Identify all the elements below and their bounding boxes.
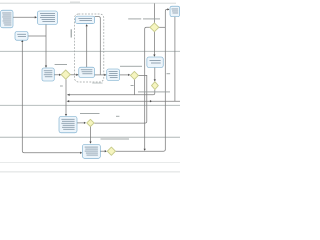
wire box1 to box2	[13, 16, 35, 18]
wire d1 bottom down to box10	[65, 79, 67, 114]
wire box9 bottom down to line b	[174, 17, 176, 102]
task box6	[76, 16, 95, 24]
task box1	[1, 10, 13, 28]
lane line L1	[0, 50, 180, 52]
lane line L4	[0, 162, 180, 164]
label t1 above d1	[55, 64, 67, 65]
wire d4 left corner down long vertical	[145, 27, 150, 149]
wire long left vertical from box3 bottom down, corner right to box11	[22, 42, 80, 153]
task box5	[79, 67, 95, 77]
dashed group rectangle	[75, 14, 104, 82]
label t12 right vertical	[167, 73, 171, 74]
wire box5 to box7	[95, 74, 105, 76]
lane line L3	[0, 136, 180, 138]
label t7 no-branch d1	[60, 86, 63, 87]
label t11 top faint	[70, 1, 80, 4]
wire box4 to diamond d1	[54, 74, 59, 76]
wire box2 down to box4	[45, 24, 47, 65]
task box8	[147, 57, 163, 68]
wire box11 to d6	[100, 150, 105, 152]
wire box5 up to box6	[86, 26, 88, 67]
label t8 no-branch d2	[131, 85, 134, 86]
wire box3 right to junction	[28, 35, 46, 37]
wire box10 to d5	[77, 122, 84, 124]
label t13 below dashed group	[92, 82, 102, 85]
label t2 above d2	[120, 66, 142, 67]
task box7	[107, 69, 120, 81]
wire d4 right to far vertical	[159, 26, 165, 28]
task box10	[59, 117, 77, 133]
task box11	[83, 145, 101, 159]
lane line L5	[0, 171, 180, 173]
gateway d1	[61, 70, 70, 79]
wire d1 to box5	[70, 74, 76, 76]
lane line L2	[0, 104, 180, 106]
gateway d4	[150, 23, 159, 32]
label t5 above d6	[101, 139, 130, 140]
label t10 on d5 wire	[116, 116, 119, 117]
task box4	[42, 68, 54, 81]
wire far right vertical from d6 up to box9	[165, 9, 167, 149]
task box3	[15, 32, 28, 41]
task box2	[37, 11, 57, 24]
wire d2 bottom down to merge line	[133, 79, 135, 94]
label t6 mid right	[138, 91, 170, 92]
gateway d6	[107, 147, 115, 155]
gateway d3	[152, 82, 159, 90]
rotated group label	[71, 29, 72, 37]
wire d6 right corner up far vertical	[116, 149, 166, 151]
wire d3 bottom down corner left long line a	[67, 90, 155, 95]
wire box8 bottom to d3	[154, 68, 156, 80]
gateway d2	[130, 71, 138, 79]
wire box6 down right side	[95, 17, 101, 75]
task box9	[170, 6, 180, 16]
label t3 above d4	[128, 18, 141, 19]
lane line top	[0, 2, 176, 4]
wire d5 bottom down to box11	[90, 127, 92, 142]
wire d4 bottom to box8	[153, 32, 155, 55]
label t4 above d5	[80, 113, 100, 114]
wire box7 to d2	[120, 74, 129, 76]
wire d4 top up	[153, 3, 155, 23]
wire d2 right down to d5	[94, 75, 147, 123]
wire line b long horizontal	[67, 100, 180, 102]
gateway d5	[87, 119, 94, 126]
